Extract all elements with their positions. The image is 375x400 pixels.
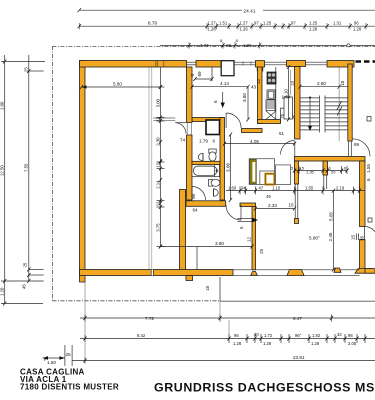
svg-text:1.26: 1.26 <box>208 27 217 32</box>
toilet lower <box>209 180 213 187</box>
duct in top wall <box>221 61 234 76</box>
svg-text:4.14: 4.14 <box>220 81 229 86</box>
svg-text:6: 6 <box>190 74 195 77</box>
stair left wall <box>295 67 301 140</box>
svg-text:35: 35 <box>360 235 365 241</box>
window band top 1 <box>234 61 256 63</box>
door living room <box>240 205 242 220</box>
pier top 3 <box>327 61 354 68</box>
svg-text:15: 15 <box>300 166 305 171</box>
svg-text:97: 97 <box>254 21 259 26</box>
bottom dim row 7.72 / 8.47 <box>80 315 375 322</box>
svg-text:1.51: 1.51 <box>219 21 228 26</box>
svg-text:1.50: 1.50 <box>47 360 56 365</box>
svg-text:51: 51 <box>279 131 285 136</box>
bath sink upper <box>198 153 203 160</box>
svg-text:3.75: 3.75 <box>155 223 160 232</box>
svg-text:12: 12 <box>155 116 160 121</box>
svg-text:96°: 96° <box>295 333 302 338</box>
kitchen corner cabinet diagonal <box>266 111 276 119</box>
toilet upper <box>209 149 216 153</box>
svg-text:25: 25 <box>24 67 29 72</box>
svg-text:1.20: 1.20 <box>0 287 5 296</box>
chain y190 <box>226 187 365 195</box>
door right wall bottom arc <box>365 227 375 240</box>
exterior wall right <box>360 161 366 227</box>
svg-text:2.33: 2.33 <box>268 203 277 208</box>
svg-text:5.90°: 5.90° <box>309 236 320 241</box>
svg-text:8.47: 8.47 <box>293 316 302 321</box>
window band bottom <box>233 269 360 271</box>
tiled stove in dining area <box>249 159 290 185</box>
svg-text:96: 96 <box>354 21 359 26</box>
bathroom strip left wall <box>187 67 193 123</box>
svg-text:1.28: 1.28 <box>309 27 318 32</box>
svg-text:1.77: 1.77 <box>200 43 209 48</box>
svg-text:12.50: 12.50 <box>0 165 5 176</box>
exterior wall left <box>80 61 86 283</box>
svg-text:2.80: 2.80 <box>317 81 326 86</box>
svg-text:43: 43 <box>251 85 257 90</box>
svg-text:1.86: 1.86 <box>243 43 252 48</box>
pier top 1 <box>255 61 264 72</box>
chain under hall wall <box>295 166 348 174</box>
pier bottom 2 <box>334 268 341 272</box>
kitchen dishwasher <box>266 100 275 111</box>
niche dim 69 <box>195 67 212 81</box>
svg-text:1.55: 1.55 <box>305 185 314 190</box>
bottom dim row 23.91 <box>72 358 375 364</box>
kitchen counter divider <box>267 83 276 85</box>
svg-text:25: 25 <box>259 248 264 254</box>
svg-text:7.55: 7.55 <box>24 163 29 172</box>
svg-text:5.80: 5.80 <box>113 82 122 87</box>
door corridor (shaft door) <box>225 113 227 128</box>
joint marks in bottom wall <box>151 270 153 276</box>
svg-text:25: 25 <box>66 352 72 357</box>
kitchen tall cabinet <box>284 97 293 119</box>
svg-text:96: 96 <box>234 333 239 338</box>
stair lower thin wall lines <box>294 141 296 156</box>
svg-text:GRUNDRISS DACHGESCHOSS MST: GRUNDRISS DACHGESCHOSS MST <box>154 381 375 395</box>
svg-text:12: 12 <box>155 201 160 206</box>
living wall foot <box>251 272 258 276</box>
slope arrow middle room <box>222 92 224 104</box>
wall below bathroom to bottom <box>180 190 186 271</box>
svg-text:25: 25 <box>23 262 28 267</box>
kitchen dim 3.10 <box>288 67 290 120</box>
svg-text:1.79: 1.79 <box>199 139 208 144</box>
window band top 2 <box>265 61 287 63</box>
stairs steps <box>300 98 348 130</box>
bathroom bottom wall <box>186 201 226 207</box>
svg-text:1.26: 1.26 <box>240 27 249 32</box>
svg-text:69: 69 <box>197 71 202 77</box>
living room right wall <box>252 207 256 270</box>
svg-text:18: 18 <box>290 80 295 86</box>
window band top 3 <box>305 61 327 63</box>
svg-text:3.80: 3.80 <box>215 241 224 246</box>
svg-text:12: 12 <box>247 236 252 242</box>
svg-text:23.91: 23.91 <box>293 355 305 360</box>
dim line break symbol <box>337 101 342 116</box>
door arc hall to corridor <box>281 141 295 155</box>
corridor wall lower <box>242 129 263 133</box>
door arc stair bottom <box>353 139 371 157</box>
svg-text:1.25: 1.25 <box>263 21 272 26</box>
kitchen door <box>280 108 282 122</box>
svg-text:7180 DISENTIS MUSTER: 7180 DISENTIS MUSTER <box>20 383 119 392</box>
svg-text:1.28: 1.28 <box>263 341 272 346</box>
svg-text:69: 69 <box>354 142 360 147</box>
living room dim 5.80 <box>82 86 161 88</box>
svg-text:8.79: 8.79 <box>148 21 157 26</box>
right wall small marks <box>356 234 358 241</box>
dim 5.05 vertical <box>333 191 335 270</box>
terrace edge solid <box>220 277 375 301</box>
right wall foot <box>355 269 375 274</box>
svg-text:1.31: 1.31 <box>333 21 342 26</box>
svg-text:96: 96 <box>348 333 353 338</box>
svg-text:1.28: 1.28 <box>311 341 320 346</box>
wall stub E <box>323 161 328 175</box>
kitchen left wall <box>258 67 263 124</box>
svg-text:49: 49 <box>266 194 271 199</box>
svg-text:1.27: 1.27 <box>240 21 249 26</box>
hall wall under stairs <box>295 157 366 162</box>
shaft <box>206 120 220 135</box>
left dimension line A <box>1 55 45 304</box>
arrow right area <box>238 219 254 222</box>
living room vertical dim line <box>157 68 165 247</box>
svg-text:45: 45 <box>22 284 27 289</box>
svg-text:74: 74 <box>180 138 186 143</box>
living room door to hall <box>175 122 186 124</box>
dimension slash ticks <box>3 60 367 363</box>
svg-text:1.15: 1.15 <box>272 185 281 190</box>
svg-text:1.25: 1.25 <box>309 21 318 26</box>
svg-text:3.80: 3.80 <box>242 93 247 102</box>
svg-text:2.19: 2.19 <box>336 185 345 190</box>
stair direction arrow <box>309 98 311 129</box>
svg-text:6: 6 <box>366 178 371 181</box>
left dimension line B <box>29 55 44 281</box>
dim 2.33 <box>256 208 295 210</box>
svg-text:64: 64 <box>193 208 199 213</box>
middle room dim 4.14 <box>192 87 248 120</box>
svg-text:20: 20 <box>331 170 336 175</box>
svg-text:6: 6 <box>213 139 216 144</box>
svg-text:47: 47 <box>259 185 264 190</box>
svg-text:1.82: 1.82 <box>312 333 321 338</box>
svg-text:1.72: 1.72 <box>264 333 273 338</box>
svg-text:4.05: 4.05 <box>250 139 259 144</box>
pier top 2 / stair left wall head <box>287 61 306 67</box>
svg-text:30: 30 <box>254 332 259 337</box>
stair dim 2.80 <box>300 86 348 88</box>
dimension row 8.79 chain <box>79 25 375 27</box>
svg-text:7.72: 7.72 <box>145 316 154 321</box>
bottom dim row 8.42 chain <box>80 334 375 343</box>
svg-text:98: 98 <box>191 193 196 199</box>
corridor wall left of shaft <box>192 118 223 122</box>
svg-text:12: 12 <box>155 162 160 167</box>
svg-text:2.30: 2.30 <box>155 137 160 146</box>
bathroom right wall <box>220 118 225 201</box>
svg-text:1.64: 1.64 <box>282 95 291 100</box>
svg-text:5.05: 5.05 <box>328 212 333 221</box>
svg-text:69: 69 <box>226 43 231 48</box>
svg-text:3.00: 3.00 <box>155 98 160 107</box>
svg-text:32: 32 <box>337 332 342 337</box>
door arc bathroom lower <box>192 187 206 201</box>
svg-text:18: 18 <box>205 285 210 291</box>
roof slope line pair in living room <box>149 67 152 270</box>
bathroom vertical dim <box>230 135 232 201</box>
svg-text:1.35: 1.35 <box>306 170 315 175</box>
svg-text:1.28: 1.28 <box>233 341 242 346</box>
wall notch <box>182 190 186 197</box>
svg-text:1.27: 1.27 <box>208 21 217 26</box>
bottom left small dims <box>43 345 73 366</box>
living room wall stub <box>240 203 256 207</box>
svg-text:6: 6 <box>213 100 218 103</box>
corridor wall upper (kitchen to stair) <box>258 120 281 124</box>
svg-text:1.55: 1.55 <box>366 164 371 173</box>
bathtub <box>192 165 220 177</box>
svg-text:1.28: 1.28 <box>353 27 362 32</box>
corridor dim 4.05 <box>225 143 295 145</box>
svg-text:15: 15 <box>289 203 295 208</box>
bathroom divider wall <box>192 161 220 164</box>
stair right wall <box>348 64 352 141</box>
kitchen stove <box>267 72 276 84</box>
svg-text:12: 12 <box>256 78 261 84</box>
svg-text:1.60: 1.60 <box>228 185 237 190</box>
svg-text:97: 97 <box>291 21 296 26</box>
roof boundary dashed outline <box>53 46 375 301</box>
kitchen sink <box>267 90 275 99</box>
extension lines bottom <box>85 282 229 361</box>
svg-text:5: 5 <box>239 226 244 229</box>
svg-text:15: 15 <box>351 234 356 240</box>
svg-text:8.42: 8.42 <box>137 333 146 338</box>
dimension row 1.77 69 1.66 <box>160 44 347 46</box>
svg-text:2.05: 2.05 <box>348 341 357 346</box>
wall stub F <box>295 161 299 184</box>
dashed wall opening top right <box>356 60 375 62</box>
bath sink lower <box>214 189 219 196</box>
exterior wall bottom (solid span) <box>80 270 234 276</box>
living room dim 3.80 <box>161 247 253 270</box>
svg-text:34: 34 <box>241 185 246 190</box>
svg-text:24.41: 24.41 <box>244 8 256 14</box>
exterior wall top (left solid span) <box>80 61 187 68</box>
stair center landing strip <box>320 96 326 133</box>
svg-text:3.06: 3.06 <box>225 163 230 172</box>
pier bottom 1 <box>287 270 304 276</box>
svg-text:2.45: 2.45 <box>328 232 333 241</box>
dimension row 24.41 top <box>79 9 375 11</box>
kitchen counter front line <box>275 67 277 120</box>
svg-text:1.00: 1.00 <box>0 101 5 110</box>
